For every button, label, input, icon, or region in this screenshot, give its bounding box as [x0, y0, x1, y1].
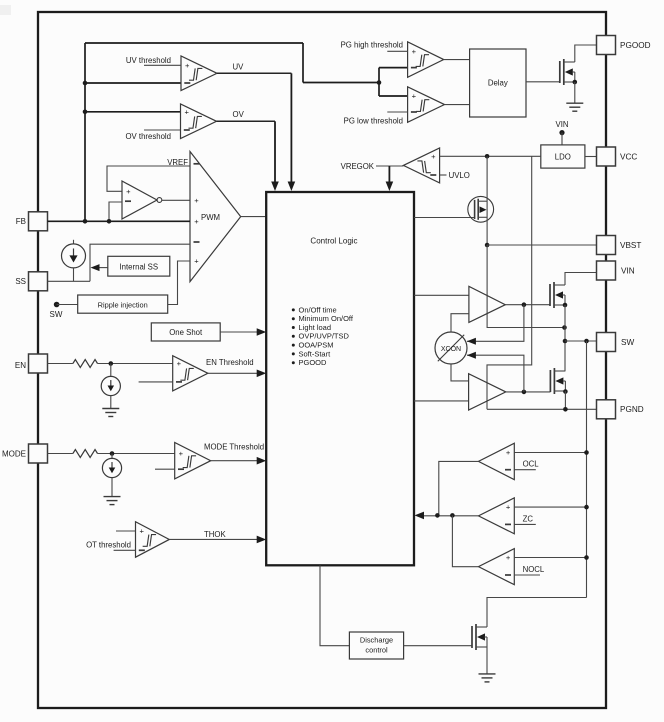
- wire control logic to low driver: [414, 400, 469, 402]
- wire OCL output: [439, 461, 479, 515]
- transistor discharge nmos: [471, 626, 473, 648]
- transistor low side nmos: [549, 370, 551, 392]
- comparator OV: [181, 104, 217, 139]
- node VBST junction: [485, 243, 490, 248]
- current source SS: [73, 240, 75, 244]
- pin PGOOD: [597, 36, 616, 55]
- label OCL: [514, 469, 536, 471]
- svg-text:+: +: [194, 217, 199, 226]
- comparator EN: [173, 356, 208, 391]
- box LDO: [541, 145, 585, 168]
- current source EN: [110, 364, 112, 377]
- driver high side: [469, 286, 505, 322]
- wire NOCL plus: [514, 557, 586, 559]
- svg-text:UVLO: UVLO: [449, 171, 470, 180]
- wire PGND rail: [487, 408, 597, 410]
- svg-text:THOK: THOK: [204, 530, 226, 539]
- wire high fet drain to VIN: [565, 273, 597, 286]
- wire FB to OV comparator plus: [85, 111, 181, 113]
- box Delay: [470, 49, 526, 117]
- transistor internal pmos: [468, 196, 494, 222]
- svg-text:Light load: Light load: [299, 323, 332, 332]
- driver low side: [469, 374, 506, 410]
- wire FB to error amp minus: [109, 202, 122, 221]
- svg-text:NOCL: NOCL: [523, 565, 545, 574]
- svg-text:+: +: [185, 61, 190, 70]
- op-amp error amplifier: [122, 181, 157, 219]
- svg-text:EN Threshold: EN Threshold: [206, 358, 254, 367]
- svg-text:+: +: [179, 449, 184, 458]
- svg-text:VBST: VBST: [620, 241, 641, 250]
- comparator PG high threshold: [408, 42, 444, 78]
- wire OV output: [217, 120, 276, 122]
- svg-text:+: +: [194, 257, 199, 266]
- svg-text:Minimum On/Off: Minimum On/Off: [299, 314, 354, 323]
- wire VREGOK to control logic: [376, 165, 403, 167]
- wire control logic to discharge: [320, 565, 349, 645]
- svg-text:EN: EN: [15, 361, 26, 370]
- svg-text:UV threshold: UV threshold: [126, 56, 171, 65]
- svg-text:+: +: [506, 503, 511, 512]
- svg-text:VREGOK: VREGOK: [341, 162, 375, 171]
- ground discharge: [479, 673, 496, 675]
- comparator UV: [181, 56, 217, 91]
- wire EN comparator output: [208, 372, 258, 374]
- wire discharge drain to SW rail: [487, 598, 587, 628]
- svg-text:PWM: PWM: [201, 213, 220, 222]
- svg-text:SW: SW: [50, 310, 63, 319]
- wire high gate signal to XCON: [467, 305, 524, 342]
- wire SW node vertical: [563, 303, 568, 308]
- svg-text:MODE Threshold: MODE Threshold: [204, 443, 264, 452]
- svg-text:VIN: VIN: [621, 267, 635, 276]
- pin VCC: [597, 147, 616, 166]
- comparator OT: [136, 522, 170, 558]
- resistor EN: [73, 360, 98, 368]
- comparator PG low threshold: [408, 87, 445, 123]
- wire NOCL output: [452, 515, 478, 566]
- scan artifact top-left: [0, 5, 11, 15]
- wire VBST line: [487, 244, 596, 246]
- box Ripple injection: [78, 295, 168, 313]
- wire pmos channel rail: [486, 156, 488, 245]
- svg-text:+: +: [139, 527, 144, 536]
- wire VREF to error amp plus: [107, 166, 190, 191]
- svg-text:ZC: ZC: [523, 514, 534, 523]
- svg-text:OVP/UVP/TSD: OVP/UVP/TSD: [299, 332, 350, 341]
- wire VBST to SW bootstrap: [487, 245, 564, 328]
- wire SW sense rail: [586, 341, 588, 598]
- wire low driver output: [506, 391, 551, 393]
- svg-text:PGOOD: PGOOD: [620, 41, 651, 50]
- wire UV output: [217, 72, 291, 74]
- wire SS line: [48, 280, 91, 282]
- wire PGOOD fet drain to pin: [575, 45, 597, 62]
- wire error amp output to PWM: [162, 199, 190, 201]
- box One Shot: [151, 323, 220, 341]
- svg-text:OV threshold: OV threshold: [125, 132, 171, 141]
- svg-text:Discharge: Discharge: [360, 636, 393, 645]
- wire LDO to VCC: [585, 156, 597, 158]
- wire discharge source to ground: [486, 647, 488, 674]
- svg-text:PGND: PGND: [620, 405, 644, 414]
- block Control Logic: [266, 192, 414, 565]
- svg-text:Soft-Start: Soft-Start: [299, 349, 332, 358]
- wire ripple injection to PWM plus: [168, 261, 190, 305]
- svg-text:+: +: [194, 196, 199, 205]
- wire PGOOD fet source to ground: [573, 80, 578, 85]
- node PG sense split: [377, 80, 382, 85]
- svg-text:OT threshold: OT threshold: [86, 541, 131, 550]
- transistor high side nmos: [549, 284, 551, 306]
- wire MODE comparator output: [211, 460, 258, 462]
- svg-text:FB: FB: [16, 217, 26, 226]
- ground MODE: [104, 496, 121, 498]
- box Discharge control: [349, 632, 403, 659]
- svg-text:SW: SW: [621, 338, 634, 347]
- svg-text:SS: SS: [15, 277, 26, 286]
- svg-text:+: +: [506, 553, 511, 562]
- wire PWM output to control logic: [241, 216, 267, 218]
- comparator ZC: [479, 498, 515, 534]
- wire SS to PWM minus: [90, 244, 190, 281]
- wire UVLO plus from VCC rail: [440, 155, 541, 157]
- node SW internal: [54, 302, 60, 308]
- wire discharge gate: [404, 645, 472, 647]
- ground EN: [102, 408, 119, 410]
- transistor PGOOD pulldown: [559, 61, 561, 83]
- svg-text:+: +: [126, 187, 131, 196]
- svg-text:Ripple injection: Ripple injection: [98, 300, 148, 309]
- box Internal SS: [108, 256, 170, 276]
- wire FB to UV comparator minus: [85, 82, 181, 84]
- svg-text:control: control: [365, 646, 388, 655]
- wire control logic to pmos gate: [414, 217, 475, 219]
- svg-text:+: +: [431, 152, 436, 161]
- wire Delay to PGOOD fet gate: [526, 81, 560, 83]
- wire OCL plus: [514, 452, 586, 454]
- svg-text:VCC: VCC: [620, 153, 637, 162]
- svg-text:VIN: VIN: [556, 120, 569, 129]
- resistor MODE: [73, 450, 98, 458]
- svg-text:PG high threshold: PG high threshold: [341, 40, 403, 49]
- svg-text:UV: UV: [233, 63, 245, 72]
- svg-text:XCON: XCON: [441, 346, 461, 353]
- svg-text:+: +: [184, 107, 189, 116]
- wire EN line: [48, 363, 73, 365]
- svg-text:Internal SS: Internal SS: [120, 263, 159, 272]
- svg-text:+: +: [412, 47, 417, 56]
- comparator OCL: [479, 443, 515, 479]
- pin VIN: [597, 261, 616, 280]
- svg-text:One Shot: One Shot: [169, 328, 203, 337]
- svg-text:LDO: LDO: [555, 153, 571, 162]
- label UVLO: [440, 174, 447, 176]
- svg-text:OCL: OCL: [523, 460, 540, 469]
- comparator MODE: [175, 443, 211, 479]
- wire ZC output to control logic: [423, 515, 479, 517]
- svg-text:OOA/PSM: OOA/PSM: [299, 341, 334, 350]
- wire XCON to high driver: [451, 314, 469, 332]
- wire MODE line: [48, 453, 73, 455]
- svg-text:PGOOD: PGOOD: [299, 358, 328, 367]
- wire PG high output: [444, 59, 470, 61]
- pin SW: [597, 333, 616, 352]
- wire internal rail down: [487, 156, 532, 409]
- wire control logic to high driver: [414, 294, 469, 296]
- wire XCON to low driver: [451, 364, 469, 381]
- svg-text:PG low threshold: PG low threshold: [344, 116, 403, 125]
- wire low gate signal to XCON: [467, 355, 524, 392]
- svg-text:On/Off time: On/Off time: [299, 305, 337, 314]
- wire ZC plus: [514, 506, 586, 508]
- svg-text:OV: OV: [233, 110, 245, 119]
- wire low fet source to PGND: [563, 389, 568, 394]
- wire FB line: [48, 220, 191, 222]
- comparator UVLO: [403, 148, 439, 183]
- comparator NOCL: [479, 549, 515, 585]
- node FB sense rail: [84, 43, 86, 221]
- svg-text:+: +: [412, 92, 417, 101]
- pin PGND: [597, 400, 616, 419]
- wire Internal SS output arrow: [99, 267, 108, 269]
- wire one shot to control logic: [220, 331, 258, 333]
- svg-text:+: +: [177, 359, 182, 368]
- label NOCL: [514, 574, 540, 576]
- label ZC: [514, 523, 536, 525]
- wire PG low output: [445, 104, 470, 106]
- wire SW line to pin: [565, 340, 597, 342]
- svg-text:+: +: [506, 448, 511, 457]
- svg-text:Control Logic: Control Logic: [310, 237, 357, 246]
- ground PGOOD fet: [566, 102, 583, 104]
- svg-text:Delay: Delay: [488, 79, 508, 88]
- circle XCON: [435, 332, 467, 364]
- svg-text:MODE: MODE: [2, 450, 26, 459]
- svg-text:VREF: VREF: [167, 158, 188, 167]
- pin VBST: [597, 236, 616, 255]
- current source MODE: [111, 454, 113, 459]
- wire high driver output: [505, 304, 550, 306]
- wire THOK output: [169, 538, 258, 540]
- comparator PWM: [190, 152, 241, 282]
